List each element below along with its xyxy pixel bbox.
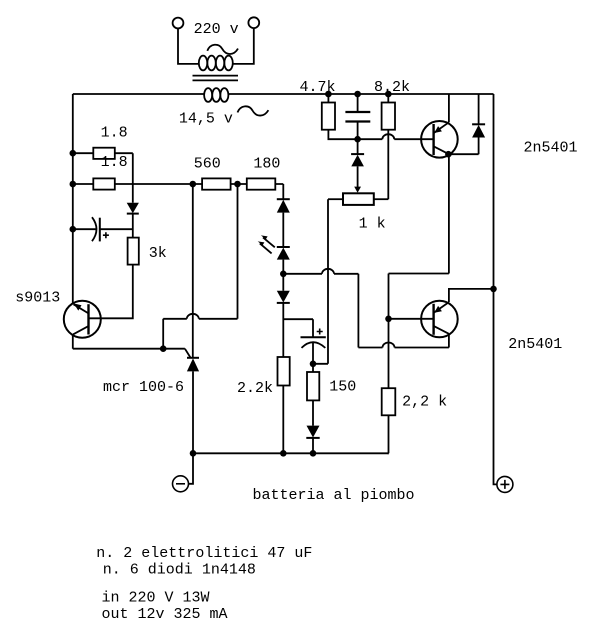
wire DB to node — [282, 260, 284, 291]
battery terminals — [173, 453, 513, 492]
wire left rail — [72, 94, 74, 304]
wire cap row — [73, 228, 133, 230]
transistor Q2 2n5401 — [389, 289, 494, 348]
label 1.8 lower — [101, 154, 128, 171]
resistor 8.2k leads — [387, 94, 389, 199]
svg-text:out 12v 325 mA: out 12v 325 mA — [102, 606, 228, 623]
wire C2 to node — [312, 342, 314, 364]
transistor Q3 s9013 — [64, 301, 101, 338]
label batteria al piombo — [253, 487, 415, 504]
secondary winding — [204, 88, 228, 102]
wire 2.2k to rail — [282, 386, 284, 454]
wire 3k to base — [89, 265, 133, 319]
wire primary left lead — [178, 28, 199, 64]
diode D-wiper — [351, 139, 364, 193]
bottom rail — [193, 452, 389, 454]
transformer core — [193, 76, 239, 81]
wire row2 — [73, 184, 283, 199]
terminal plus — [497, 476, 513, 492]
LED chain column — [258, 199, 290, 453]
transformer T1 — [173, 17, 269, 115]
led arrows — [258, 235, 275, 253]
primary winding — [199, 56, 233, 71]
capacitor C2 plus — [317, 329, 323, 335]
resistor 1.8 upper — [93, 148, 115, 159]
label 2n5401 lower — [508, 336, 562, 353]
wire diode to 3k — [132, 214, 134, 238]
wire hop over pot lead — [322, 269, 334, 274]
wire hop over 2,2k lead — [383, 343, 395, 348]
wire right rail to + terminal — [494, 94, 497, 484]
label 2,2 k — [402, 394, 447, 411]
transistor Q1 2n5401 — [389, 94, 479, 274]
wire hop over 8.2k lead — [382, 134, 394, 139]
resistor 4.7k leads — [328, 94, 357, 139]
resistor 150 — [307, 372, 319, 400]
label 1.8 upper — [101, 125, 128, 142]
svg-text:n. 2 elettrolitici 47 uF: n. 2 elettrolitici 47 uF — [96, 545, 312, 562]
svg-text:2n5401: 2n5401 — [508, 336, 562, 353]
wire hop over SCR line — [187, 314, 199, 319]
diode DB led — [277, 247, 290, 260]
diode above 3k — [127, 203, 139, 214]
label 1 k — [359, 216, 386, 233]
wire row1 — [73, 153, 133, 203]
wire primary right lead — [233, 28, 254, 64]
ac sine secondary — [238, 106, 269, 115]
svg-text:in 220 V 13W: in 220 V 13W — [102, 590, 210, 607]
resistor 3k — [128, 238, 139, 265]
ac sine primary — [207, 45, 238, 54]
label 2.2k — [237, 380, 273, 397]
potentiometer 1k — [343, 193, 374, 205]
terminal minus — [173, 476, 189, 492]
resistor 2,2k — [382, 388, 396, 415]
svg-text:150: 150 — [329, 379, 356, 396]
wire node to C2 — [283, 319, 313, 337]
svg-text:mcr 100-6: mcr 100-6 — [103, 379, 184, 396]
wire to minus terminal — [188, 453, 193, 484]
diode DD — [306, 426, 319, 438]
resistor 8.2k — [382, 103, 395, 130]
capacitor C1 leads — [357, 94, 359, 139]
wire node to pot-left riser — [313, 199, 328, 364]
label 180 — [253, 156, 280, 173]
wire 2,2k column — [388, 274, 390, 454]
capacitor C2 curved plate — [302, 342, 326, 348]
wire DA to DB — [282, 213, 284, 247]
label s9013 — [15, 290, 60, 307]
label 560 — [194, 156, 221, 173]
capacitor C-left curved plate — [92, 217, 97, 241]
resistor 2.2k — [278, 357, 290, 386]
diode DA — [277, 199, 290, 212]
diode DC — [277, 291, 290, 303]
wire top rail — [73, 93, 494, 95]
wire Q1 base — [358, 138, 434, 140]
wire led node to Q2 collector — [283, 274, 449, 348]
capacitor C-left straight plate — [99, 218, 101, 242]
resistor 560 — [202, 178, 231, 189]
wire 560-180 node down and left — [163, 184, 237, 349]
wire Q3 collector to SCR gate — [73, 334, 191, 357]
wire pot left lead — [328, 198, 343, 200]
terminal 220v right — [248, 17, 259, 28]
wire pot right lead — [374, 198, 389, 200]
wire DC to 2.2k — [282, 303, 284, 357]
svg-text:8.2k: 8.2k — [374, 79, 410, 96]
svg-text:3k: 3k — [149, 245, 167, 262]
svg-text:1.8: 1.8 — [101, 125, 128, 142]
wire 560-left down to SCR — [192, 184, 194, 358]
label 14,5 v — [179, 111, 233, 128]
label mcr 100-6 — [103, 379, 184, 396]
notes text block — [96, 545, 312, 623]
svg-text:2n5401: 2n5401 — [524, 139, 578, 156]
svg-text:s9013: s9013 — [15, 290, 60, 307]
svg-text:14,5 v: 14,5 v — [179, 111, 233, 128]
svg-text:1 k: 1 k — [359, 216, 386, 233]
label 2n5401 upper — [524, 139, 578, 156]
svg-text:220 v: 220 v — [194, 21, 239, 38]
svg-text:n. 6 diodi 1n4148: n. 6 diodi 1n4148 — [103, 562, 256, 579]
svg-text:batteria al piombo: batteria al piombo — [253, 487, 415, 504]
resistor 1.8 lower — [93, 178, 115, 189]
label 4.7k — [300, 79, 336, 96]
svg-text:180: 180 — [253, 156, 280, 173]
resistor 150 leads — [312, 364, 314, 454]
svg-text:560: 560 — [194, 156, 221, 173]
left column — [73, 148, 283, 319]
svg-text:1.8: 1.8 — [101, 154, 128, 171]
diode DE — [472, 94, 485, 154]
wire SCR anode down — [192, 371, 194, 453]
svg-text:2,2 k: 2,2 k — [402, 394, 447, 411]
label 8.2k — [374, 79, 410, 96]
label 3k — [149, 245, 167, 262]
capacitor C1 plates — [345, 112, 370, 122]
upper middle: divider network — [322, 94, 434, 205]
capacitor C-left plus — [103, 232, 109, 238]
middle right section — [193, 199, 449, 453]
label 220 v — [194, 21, 239, 38]
resistor 180 — [247, 178, 275, 189]
label 150 — [329, 379, 356, 396]
resistor 4.7k — [322, 103, 335, 130]
svg-text:2.2k: 2.2k — [237, 380, 273, 397]
capacitor C2 straight plate — [301, 336, 326, 338]
terminal 220v left — [173, 18, 184, 29]
SCR mcr100-6 — [187, 358, 199, 372]
